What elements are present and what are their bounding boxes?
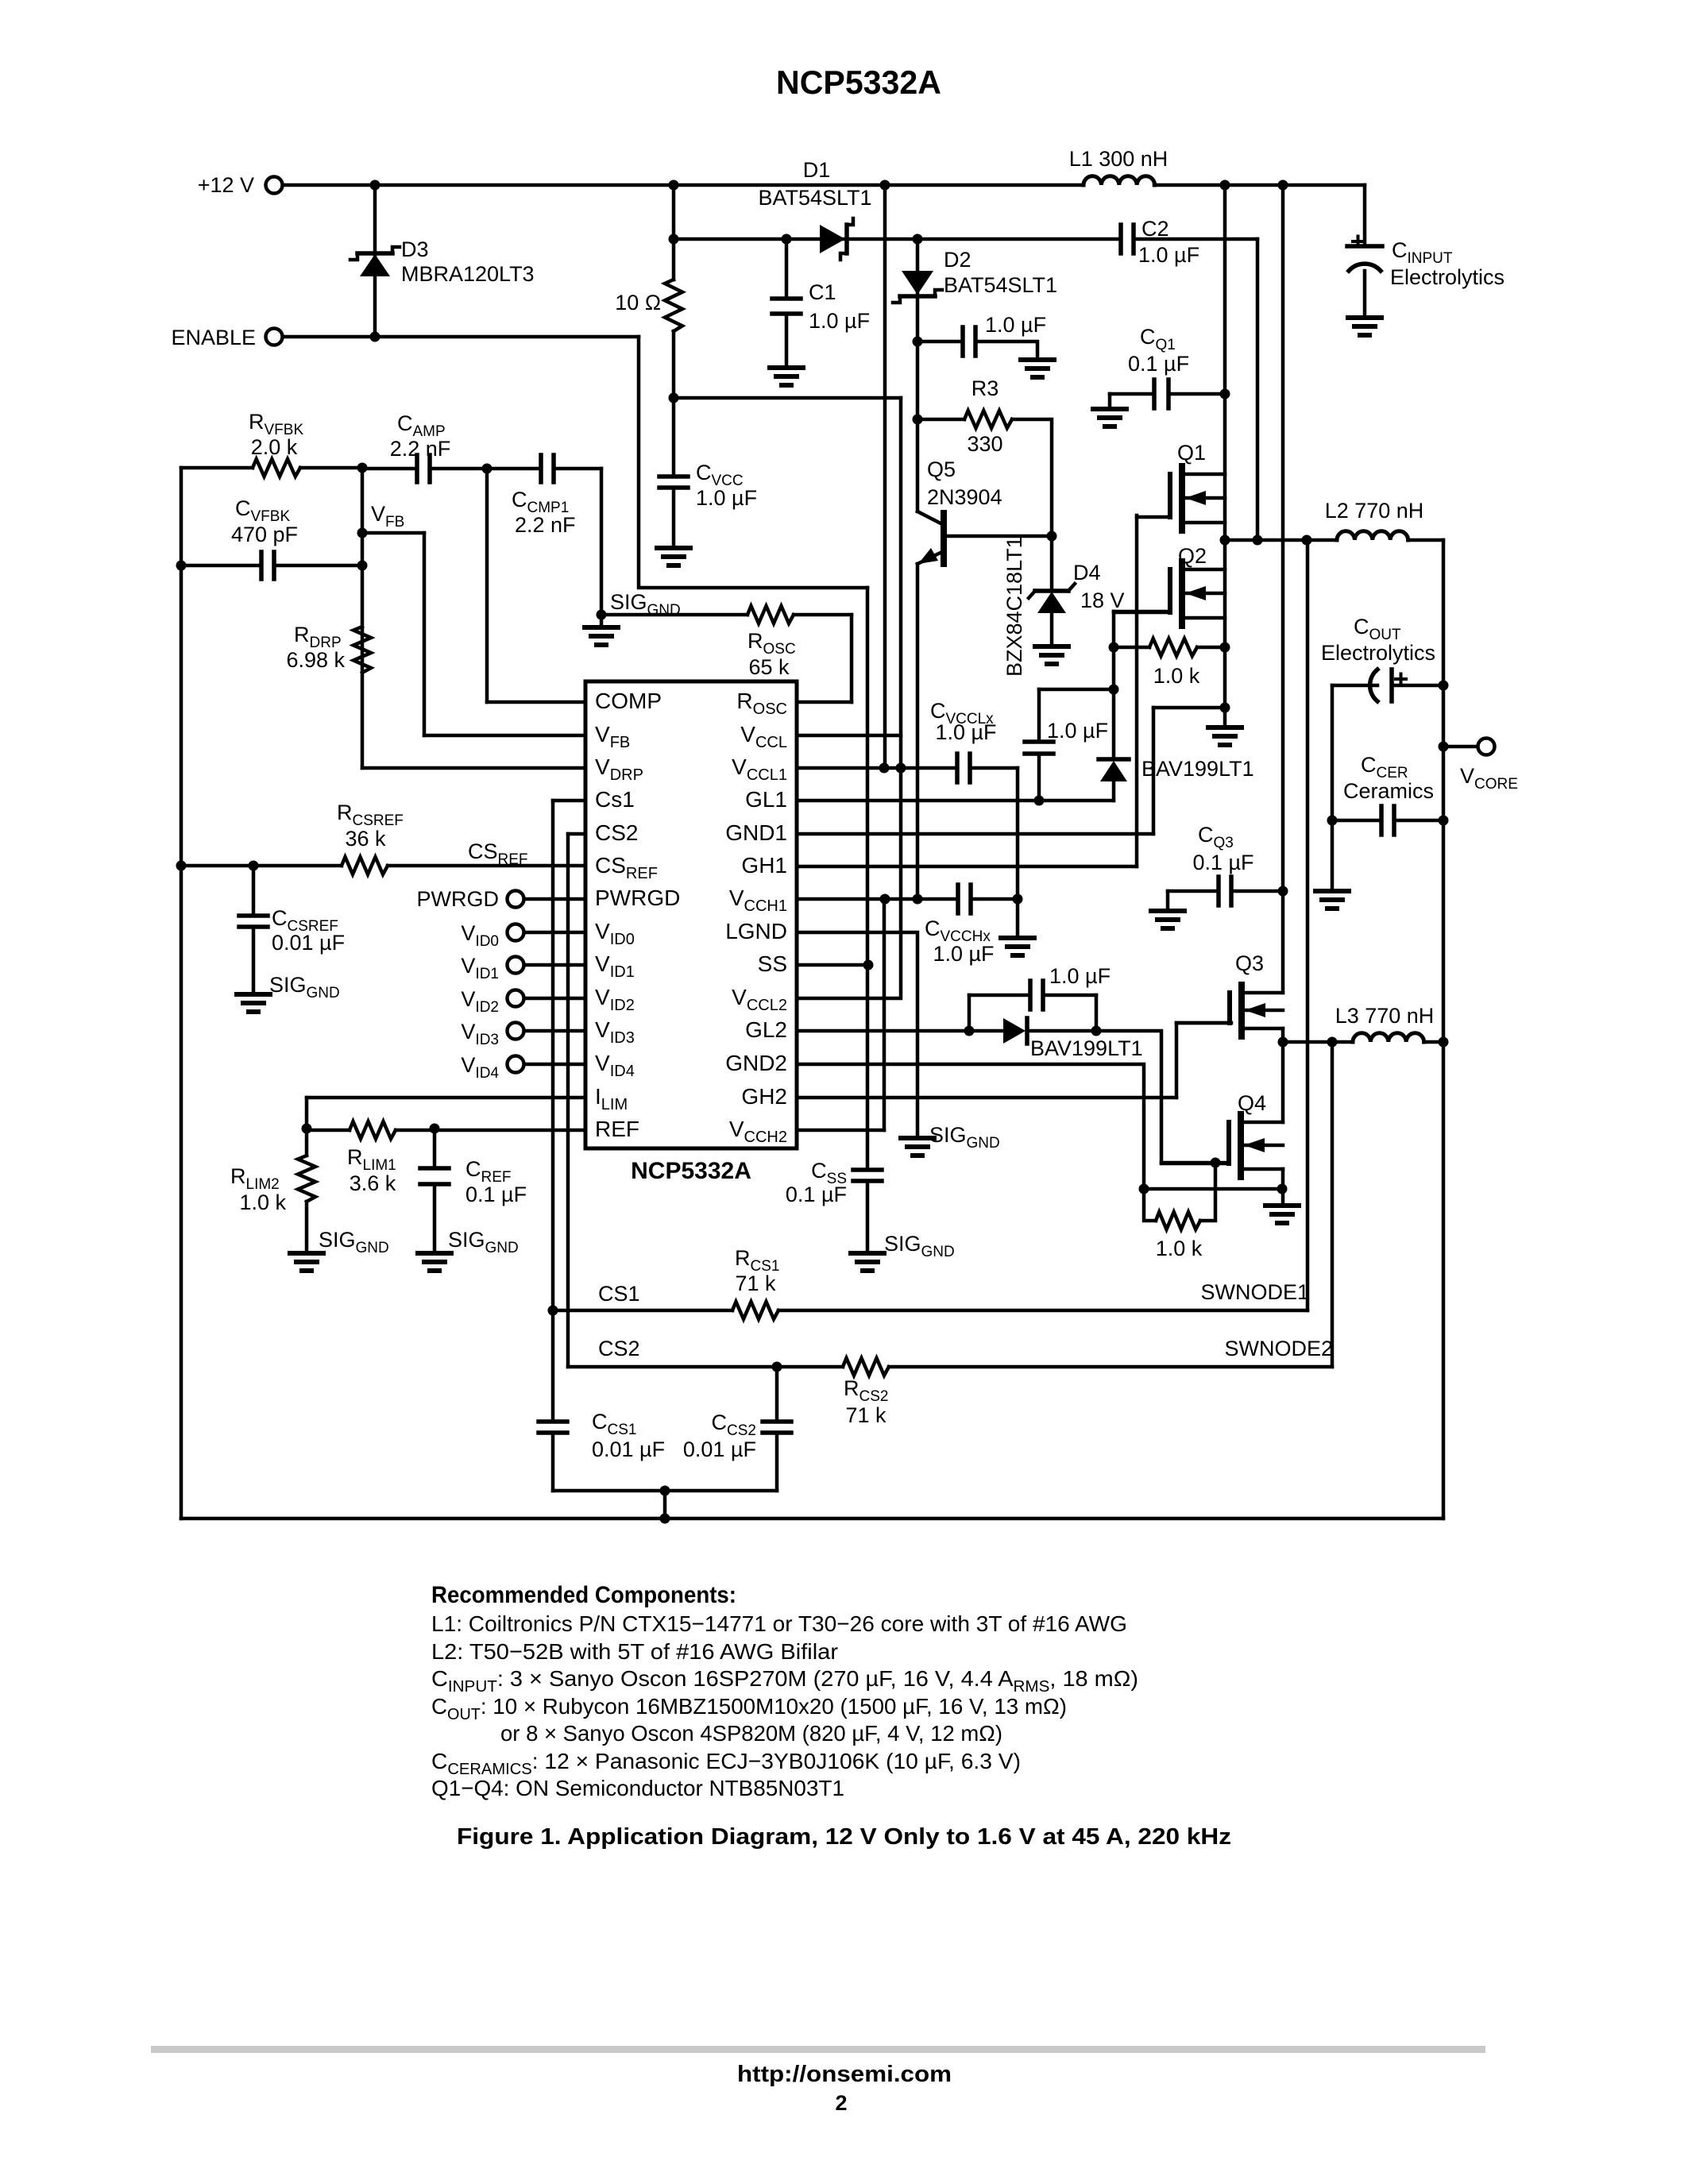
svg-text:1.0 k: 1.0 k <box>1156 1237 1203 1260</box>
svg-text:D2: D2 <box>944 248 971 272</box>
svg-text:1.0 µF: 1.0 µF <box>933 942 994 966</box>
svg-text:PWRGD: PWRGD <box>417 887 500 911</box>
svg-text:Figure 1. Application Diagram,: Figure 1. Application Diagram, 12 V Only… <box>457 1824 1231 1850</box>
svg-text:D3: D3 <box>401 237 429 261</box>
svg-text:Ceramics: Ceramics <box>1343 779 1434 803</box>
svg-text:L3 770 nH: L3 770 nH <box>1335 1004 1435 1028</box>
svg-text:GH2: GH2 <box>741 1084 787 1109</box>
svg-text:L2: T50−52B with 5T of #16 AWG: L2: T50−52B with 5T of #16 AWG Bifilar <box>431 1639 838 1664</box>
svg-text:2: 2 <box>835 2091 847 2115</box>
svg-text:Recommended Components:: Recommended Components: <box>431 1582 736 1608</box>
svg-text:0.1 µF: 0.1 µF <box>1128 352 1189 376</box>
svg-text:http://onsemi.com: http://onsemi.com <box>737 2062 952 2087</box>
svg-text:CS1: CS1 <box>598 1282 640 1306</box>
svg-text:COMP: COMP <box>595 689 662 713</box>
svg-text:Q2: Q2 <box>1178 544 1207 568</box>
svg-text:BAT54SLT1: BAT54SLT1 <box>758 186 871 210</box>
svg-text:Q4: Q4 <box>1238 1091 1266 1115</box>
svg-text:GND1: GND1 <box>725 820 787 845</box>
svg-text:470 pF: 470 pF <box>231 523 298 546</box>
svg-text:D4: D4 <box>1073 561 1101 585</box>
svg-text:+12 V: +12 V <box>198 173 254 197</box>
svg-text:Electrolytics: Electrolytics <box>1390 265 1505 289</box>
svg-text:Q3: Q3 <box>1235 951 1264 975</box>
svg-text:MBRA120LT3: MBRA120LT3 <box>401 262 535 286</box>
svg-text:36 k: 36 k <box>345 827 386 851</box>
svg-text:BAV199LT1: BAV199LT1 <box>1141 757 1254 781</box>
svg-text:0.1 µF: 0.1 µF <box>786 1183 847 1206</box>
svg-text:GND2: GND2 <box>725 1051 787 1075</box>
svg-text:Q1−Q4: ON Semiconductor NTB85N: Q1−Q4: ON Semiconductor NTB85N03T1 <box>431 1776 844 1800</box>
svg-text:Electrolytics: Electrolytics <box>1321 641 1435 665</box>
svg-text:3.6 k: 3.6 k <box>350 1171 396 1195</box>
svg-text:BAT54SLT1: BAT54SLT1 <box>944 273 1057 297</box>
svg-text:18 V: 18 V <box>1080 588 1125 612</box>
svg-text:BAV199LT1: BAV199LT1 <box>1030 1036 1143 1060</box>
svg-text:Q1: Q1 <box>1177 441 1206 465</box>
svg-text:2.0 k: 2.0 k <box>251 435 298 459</box>
svg-text:C2: C2 <box>1141 217 1169 241</box>
svg-text:6.98 k: 6.98 k <box>286 648 345 672</box>
svg-text:GL2: GL2 <box>745 1017 787 1042</box>
svg-text:Q5: Q5 <box>927 457 956 481</box>
svg-text:LGND: LGND <box>725 919 787 943</box>
svg-text:CS2: CS2 <box>598 1337 640 1360</box>
svg-text:GL1: GL1 <box>745 787 787 812</box>
svg-text:or 8 × Sanyo Oscon 4SP820M (82: or 8 × Sanyo Oscon 4SP820M (820 µF, 4 V,… <box>500 1721 1002 1746</box>
svg-text:10 Ω: 10 Ω <box>615 291 661 314</box>
svg-text:NCP5332A: NCP5332A <box>631 1158 751 1184</box>
svg-text:71 k: 71 k <box>845 1403 886 1427</box>
svg-text:0.1 µF: 0.1 µF <box>1192 851 1253 874</box>
svg-text:1.0 µF: 1.0 µF <box>696 486 757 510</box>
svg-text:0.01 µF: 0.01 µF <box>683 1437 756 1461</box>
svg-text:BZX84C18LT1: BZX84C18LT1 <box>1002 536 1026 677</box>
svg-text:2.2 nF: 2.2 nF <box>515 513 576 537</box>
svg-text:0.01 µF: 0.01 µF <box>592 1437 665 1461</box>
svg-text:C1: C1 <box>809 280 836 304</box>
svg-text:0.1 µF: 0.1 µF <box>465 1183 527 1206</box>
svg-text:CS2: CS2 <box>595 820 638 845</box>
svg-text:L2 770 nH: L2 770 nH <box>1325 499 1424 523</box>
svg-text:SWNODE2: SWNODE2 <box>1224 1337 1333 1360</box>
svg-text:Cs1: Cs1 <box>595 787 635 812</box>
svg-text:1.0 k: 1.0 k <box>239 1190 286 1214</box>
svg-text:1.0 µF: 1.0 µF <box>1138 243 1199 267</box>
svg-text:ENABLE: ENABLE <box>171 326 256 349</box>
svg-text:1.0 µF: 1.0 µF <box>985 313 1046 337</box>
svg-text:2.2 nF: 2.2 nF <box>390 437 451 461</box>
svg-text:L1: Coiltronics P/N CTX15−1477: L1: Coiltronics P/N CTX15−14771 or T30−2… <box>431 1611 1127 1636</box>
svg-text:SWNODE1: SWNODE1 <box>1200 1280 1309 1304</box>
svg-text:1.0 µF: 1.0 µF <box>935 720 996 744</box>
svg-text:1.0 µF: 1.0 µF <box>1049 964 1111 988</box>
svg-text:GH1: GH1 <box>741 853 787 878</box>
svg-text:71 k: 71 k <box>735 1271 776 1295</box>
svg-text:L1 300 nH: L1 300 nH <box>1069 147 1168 171</box>
svg-text:2N3904: 2N3904 <box>927 485 1002 509</box>
svg-text:0.01 µF: 0.01 µF <box>272 931 345 955</box>
svg-text:NCP5332A: NCP5332A <box>776 64 941 101</box>
svg-text:SS: SS <box>758 951 787 976</box>
svg-text:65 k: 65 k <box>748 655 790 679</box>
svg-text:1.0 µF: 1.0 µF <box>809 309 870 333</box>
svg-text:1.0 k: 1.0 k <box>1153 664 1200 688</box>
svg-text:PWRGD: PWRGD <box>595 886 680 910</box>
svg-text:330: 330 <box>967 432 1002 456</box>
svg-text:1.0 µF: 1.0 µF <box>1047 719 1108 743</box>
svg-text:D1: D1 <box>803 158 831 182</box>
svg-text:REF: REF <box>595 1117 639 1141</box>
svg-text:R3: R3 <box>971 376 999 400</box>
